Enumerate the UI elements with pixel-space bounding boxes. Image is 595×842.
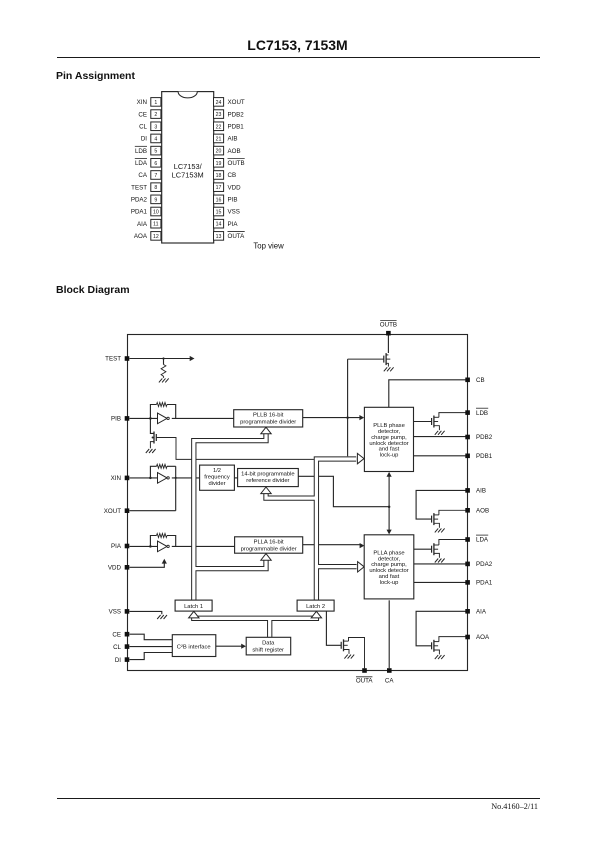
svg-text:XIN: XIN <box>137 99 147 106</box>
svg-text:TEST: TEST <box>131 184 147 191</box>
svg-text:lock-up: lock-up <box>380 453 399 459</box>
svg-text:TEST: TEST <box>105 356 121 363</box>
svg-text:20: 20 <box>216 149 222 155</box>
svg-text:22: 22 <box>216 124 222 130</box>
svg-text:24: 24 <box>216 100 222 106</box>
svg-text:CA: CA <box>385 678 394 685</box>
svg-text:PDB2: PDB2 <box>476 434 493 441</box>
svg-text:Latch 1: Latch 1 <box>184 604 203 610</box>
svg-text:PDB1: PDB1 <box>476 453 493 460</box>
svg-text:AOA: AOA <box>134 233 148 240</box>
svg-text:AOB: AOB <box>476 508 489 515</box>
svg-text:XIN: XIN <box>111 475 121 482</box>
svg-text:PDA2: PDA2 <box>476 561 493 568</box>
svg-text:LDB: LDB <box>135 148 147 155</box>
svg-text:PLLB 16-bit: PLLB 16-bit <box>253 413 284 419</box>
svg-text:AIB: AIB <box>228 136 238 143</box>
svg-text:LDB: LDB <box>476 410 488 417</box>
svg-text:13: 13 <box>216 234 222 240</box>
svg-text:PLLA 16-bit: PLLA 16-bit <box>254 540 284 546</box>
svg-text:9: 9 <box>154 197 157 203</box>
svg-text:PIB: PIB <box>228 197 238 204</box>
svg-text:1/2: 1/2 <box>213 468 221 474</box>
svg-text:VDD: VDD <box>108 565 122 572</box>
svg-text:6: 6 <box>154 161 157 167</box>
svg-text:1: 1 <box>154 100 157 106</box>
svg-text:15: 15 <box>216 210 222 216</box>
svg-text:Latch 2: Latch 2 <box>306 604 325 610</box>
svg-text:AOB: AOB <box>228 148 241 155</box>
svg-text:PDA2: PDA2 <box>131 197 148 204</box>
svg-text:2: 2 <box>154 112 157 118</box>
svg-text:AOA: AOA <box>476 634 490 641</box>
svg-text:AIB: AIB <box>476 488 486 495</box>
svg-text:7: 7 <box>154 173 157 179</box>
svg-text:PDB1: PDB1 <box>228 123 245 130</box>
svg-text:programmable divider: programmable divider <box>240 419 296 425</box>
svg-text:PDB2: PDB2 <box>228 111 245 118</box>
svg-text:VSS: VSS <box>109 609 121 616</box>
svg-text:CL: CL <box>113 644 121 651</box>
svg-text:C²B interface: C²B interface <box>177 644 211 650</box>
svg-text:23: 23 <box>216 112 222 118</box>
svg-text:10: 10 <box>153 210 159 216</box>
svg-text:DI: DI <box>115 657 121 664</box>
svg-text:AIA: AIA <box>137 221 148 228</box>
svg-text:VSS: VSS <box>228 209 240 216</box>
svg-text:OUTA: OUTA <box>356 678 374 685</box>
svg-text:reference divider: reference divider <box>246 478 289 484</box>
svg-text:DI: DI <box>141 136 147 143</box>
svg-text:16: 16 <box>216 197 222 203</box>
svg-text:LDA: LDA <box>135 160 148 167</box>
svg-text:CL: CL <box>139 123 147 130</box>
svg-text:8: 8 <box>154 185 157 191</box>
svg-text:LC7153M: LC7153M <box>172 170 204 179</box>
svg-text:frequency: frequency <box>204 475 230 481</box>
svg-text:21: 21 <box>216 136 222 142</box>
svg-text:divider: divider <box>208 481 225 487</box>
svg-text:PDA1: PDA1 <box>131 209 148 216</box>
svg-text:PIB: PIB <box>111 416 121 423</box>
svg-text:OUTB: OUTB <box>228 160 245 167</box>
svg-text:CE: CE <box>138 111 147 118</box>
svg-text:CB: CB <box>228 172 237 179</box>
svg-text:18: 18 <box>216 173 222 179</box>
svg-text:3: 3 <box>154 124 157 130</box>
svg-text:17: 17 <box>216 185 222 191</box>
svg-text:XOUT: XOUT <box>104 508 121 515</box>
svg-text:XOUT: XOUT <box>228 99 245 106</box>
svg-text:19: 19 <box>216 161 222 167</box>
svg-text:11: 11 <box>153 222 158 228</box>
svg-text:CA: CA <box>138 172 147 179</box>
svg-text:CE: CE <box>112 631 121 638</box>
svg-text:14-bit programmable: 14-bit programmable <box>241 471 295 477</box>
svg-text:programmable divider: programmable divider <box>241 546 297 552</box>
svg-text:5: 5 <box>154 149 157 155</box>
svg-text:Top view: Top view <box>253 241 284 250</box>
svg-text:OUTB: OUTB <box>380 321 397 328</box>
svg-text:VDD: VDD <box>228 184 242 191</box>
svg-text:14: 14 <box>216 222 222 228</box>
svg-text:PIA: PIA <box>228 221 239 228</box>
svg-text:AIA: AIA <box>476 609 487 616</box>
svg-text:12: 12 <box>153 234 159 240</box>
svg-text:4: 4 <box>154 136 157 142</box>
svg-text:CB: CB <box>476 377 485 384</box>
svg-text:OUTA: OUTA <box>228 233 246 240</box>
svg-text:Data: Data <box>262 641 275 647</box>
svg-text:PIA: PIA <box>111 543 122 550</box>
svg-text:lock-up: lock-up <box>380 580 399 586</box>
svg-text:shift register: shift register <box>252 647 284 653</box>
svg-text:LDA: LDA <box>476 537 489 544</box>
svg-text:PDA1: PDA1 <box>476 580 493 587</box>
